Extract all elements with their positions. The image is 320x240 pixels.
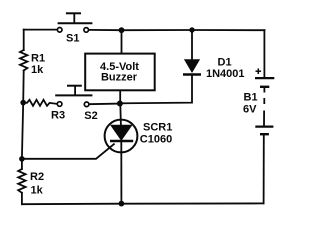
- svg-text:Buzzer: Buzzer: [101, 72, 138, 84]
- svg-text:B1: B1: [244, 92, 258, 104]
- svg-text:1N4001: 1N4001: [206, 68, 245, 80]
- svg-text:C1060: C1060: [140, 133, 172, 145]
- svg-text:R1: R1: [31, 53, 45, 65]
- svg-text:D1: D1: [218, 57, 232, 69]
- svg-text:R3: R3: [51, 110, 65, 122]
- svg-text:SCR1: SCR1: [143, 122, 172, 134]
- svg-text:R2: R2: [30, 171, 44, 183]
- svg-text:S1: S1: [66, 33, 79, 45]
- svg-text:S2: S2: [84, 110, 97, 122]
- svg-text:1k: 1k: [31, 185, 44, 197]
- svg-text:6V: 6V: [243, 104, 257, 116]
- svg-text:1k: 1k: [31, 64, 44, 76]
